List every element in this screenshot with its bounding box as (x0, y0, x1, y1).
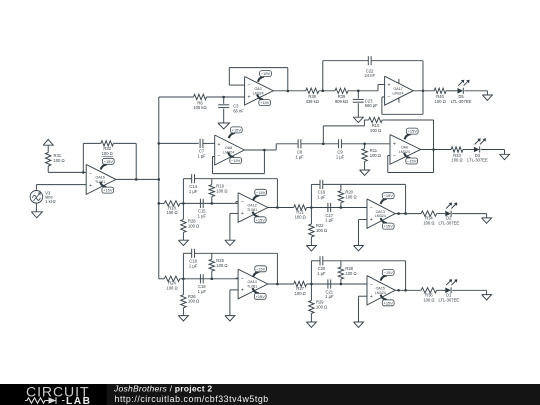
svg-text:http://circuitlab.com/cbf33tv4: http://circuitlab.com/cbf33tv4w5tgb (115, 394, 269, 404)
svg-text:LAB: LAB (66, 396, 91, 405)
svg-text:JoshBrothers / project 2: JoshBrothers / project 2 (113, 384, 212, 394)
